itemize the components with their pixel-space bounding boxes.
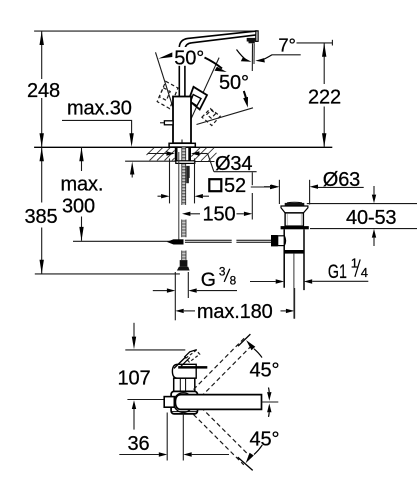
50 deg no.1 left arrow [158,52,172,58]
plan dashed band upper 45 [194,338,253,397]
7 deg right arc arrow [262,55,272,60]
svg-text:45°: 45° [250,359,280,381]
aerator block [247,38,257,42]
diameter 34 left arrow [148,153,168,155]
plan side square [164,397,174,408]
svg-text:max.180: max.180 [197,301,273,323]
tailpipe clamp band [284,250,304,254]
dimension 36 extension lines [166,413,168,461]
plan spout tip diagonals [174,357,186,369]
pop-up rod to drain (double line with break) [185,239,232,241]
50 deg no.1 right arrow (curved) [205,58,223,69]
drain axis extension line [294,288,296,319]
svg-text:300: 300 [62,195,95,217]
plan handle bar [175,395,261,410]
svg-text:Ø34: Ø34 [215,153,252,175]
handle inner square [191,95,202,106]
drain flange top band [285,203,305,206]
arrow up 248 [40,31,44,45]
lower 45 arc arrows [246,453,254,464]
G 1 1/4 dimension arrows [250,281,276,283]
bottom reference line (385) [35,273,180,275]
left angle line L1 (dashed handle axis) [156,52,173,107]
40-53 top extension line [307,203,417,205]
body centre tick [181,140,183,148]
washer under deck [176,161,195,164]
plan spout arm rounded block [172,364,196,378]
dashed handle square left [157,81,178,108]
drain flange dome [287,201,302,204]
svg-text:150: 150 [203,204,236,226]
square 52 symbol [209,179,221,191]
svg-text:36: 36 [128,433,150,455]
svg-text:7°: 7° [278,34,295,55]
top extension line (248 reference, spout top) [34,30,256,32]
deck hatching left of shank [147,148,175,161]
svg-text:3: 3 [219,265,226,279]
svg-text:52: 52 [224,175,246,197]
svg-text:8: 8 [230,274,237,288]
svg-text:max.: max. [61,173,104,195]
arrow down 248 [40,133,44,147]
svg-text:4: 4 [361,265,368,280]
svg-text:max.30: max.30 [67,97,132,119]
upper band axis segment [238,334,250,346]
dimension 385 line [41,147,43,202]
drain flange brim [281,206,308,213]
spout bottom edge [185,35,256,49]
water stream lines [251,44,253,72]
52 right leader and arrow [251,186,270,188]
dimension 222 top reference line (7 deg line) [297,42,333,44]
diameter 34 right arrow [191,151,199,155]
svg-text:222: 222 [308,86,341,108]
svg-text:40-53: 40-53 [346,207,396,229]
rod tee clamp [174,239,184,244]
50 deg no.2 down arrow [244,91,247,100]
mounting nut [186,166,190,178]
40-53 dimension arrows [373,186,375,195]
max.180 dimension [175,309,183,313]
plan aerator dashed outline [186,350,200,362]
dashed handle square lower-right [202,109,220,126]
spout end cap [256,31,258,42]
plan shank circle [174,393,194,413]
107 top arrow [133,323,135,338]
svg-text:50°: 50° [174,48,204,70]
shank right wall [188,147,191,161]
36 dimension arrows [119,454,159,456]
40-53 bottom extension line [310,228,417,230]
deck underside line right [195,161,215,163]
lower hose braid segment [182,251,186,261]
G3/8 extension lines [174,272,176,320]
gasket ring [281,226,309,229]
base flange [169,143,195,147]
side tab on body [164,121,173,125]
plan spout tip cap [184,350,197,358]
7 deg left arc arrow [237,50,248,61]
svg-text:G1: G1 [328,261,347,283]
52 dimension arrows at escutcheon [158,195,162,197]
max.30 leader underline [62,120,132,134]
max300 bottom reference line [73,240,173,242]
svg-text:385: 385 [25,206,58,228]
drain upper body [285,213,303,226]
deck underside line left [125,160,176,162]
plan escutcheon square [171,391,197,414]
threaded stud braid [182,147,186,205]
upper hose braid segment [182,220,186,238]
svg-text:248: 248 [27,80,60,102]
tailpipe axis line [293,254,295,319]
deck hatching right of shank [191,148,216,161]
dimension 222 vertical line [323,43,325,84]
diameter 63 arrows [264,186,271,188]
bar axis stub [262,401,279,403]
spout top edge [179,31,256,47]
plan spout thick band [178,366,207,369]
upper 45 arc arrows [246,340,255,350]
aerator lip [249,42,255,44]
diameter 63 label underline [318,186,364,188]
G3/8 dimension arrows [153,290,167,292]
max.30 lower arrow (deck underside) [130,162,134,175]
lower-right dashed handle axis line L3 [197,108,254,125]
dimension 150 [182,212,190,216]
lower band axis segment [238,457,253,470]
side port stub [278,236,285,246]
body shading lines [286,214,288,226]
7 deg reference line under label [272,54,301,56]
G 3/8 nipple [180,260,188,267]
svg-text:45°: 45° [250,428,280,450]
diameter 63 extension lines [278,180,280,204]
drain lower body [284,229,304,290]
escutcheon extension lines (52) [169,159,171,204]
faucet body [173,97,191,144]
dimension 248 vertical line [41,31,43,79]
label 50 deg no.1 [174,47,208,70]
svg-text:50°: 50° [219,72,249,94]
shank left wall [175,147,178,161]
arrow up 222 [322,43,326,57]
max.30 arrow down to deck [129,133,133,147]
pull rod upper [178,152,180,240]
107 bottom arrow [132,400,136,409]
deck line [34,146,332,148]
plan handle-axis extension line [127,399,167,401]
plan top extension line [125,349,185,351]
svg-text:107: 107 [118,367,151,389]
extension line right of 52 [251,172,253,185]
svg-text:Ø63: Ø63 [323,169,360,191]
diameter 34 leader to label [208,154,214,172]
faucet riser pipe [178,47,180,97]
arrow down 222 [322,133,326,147]
side port knob [271,235,278,246]
solid handle axis line L2 [190,58,219,122]
max300 dimension line [81,147,83,171]
svg-text:G: G [201,269,216,291]
plan dashed band lower 45 [194,407,252,465]
plan body column [174,378,195,391]
solid handle (lever) [189,87,207,110]
